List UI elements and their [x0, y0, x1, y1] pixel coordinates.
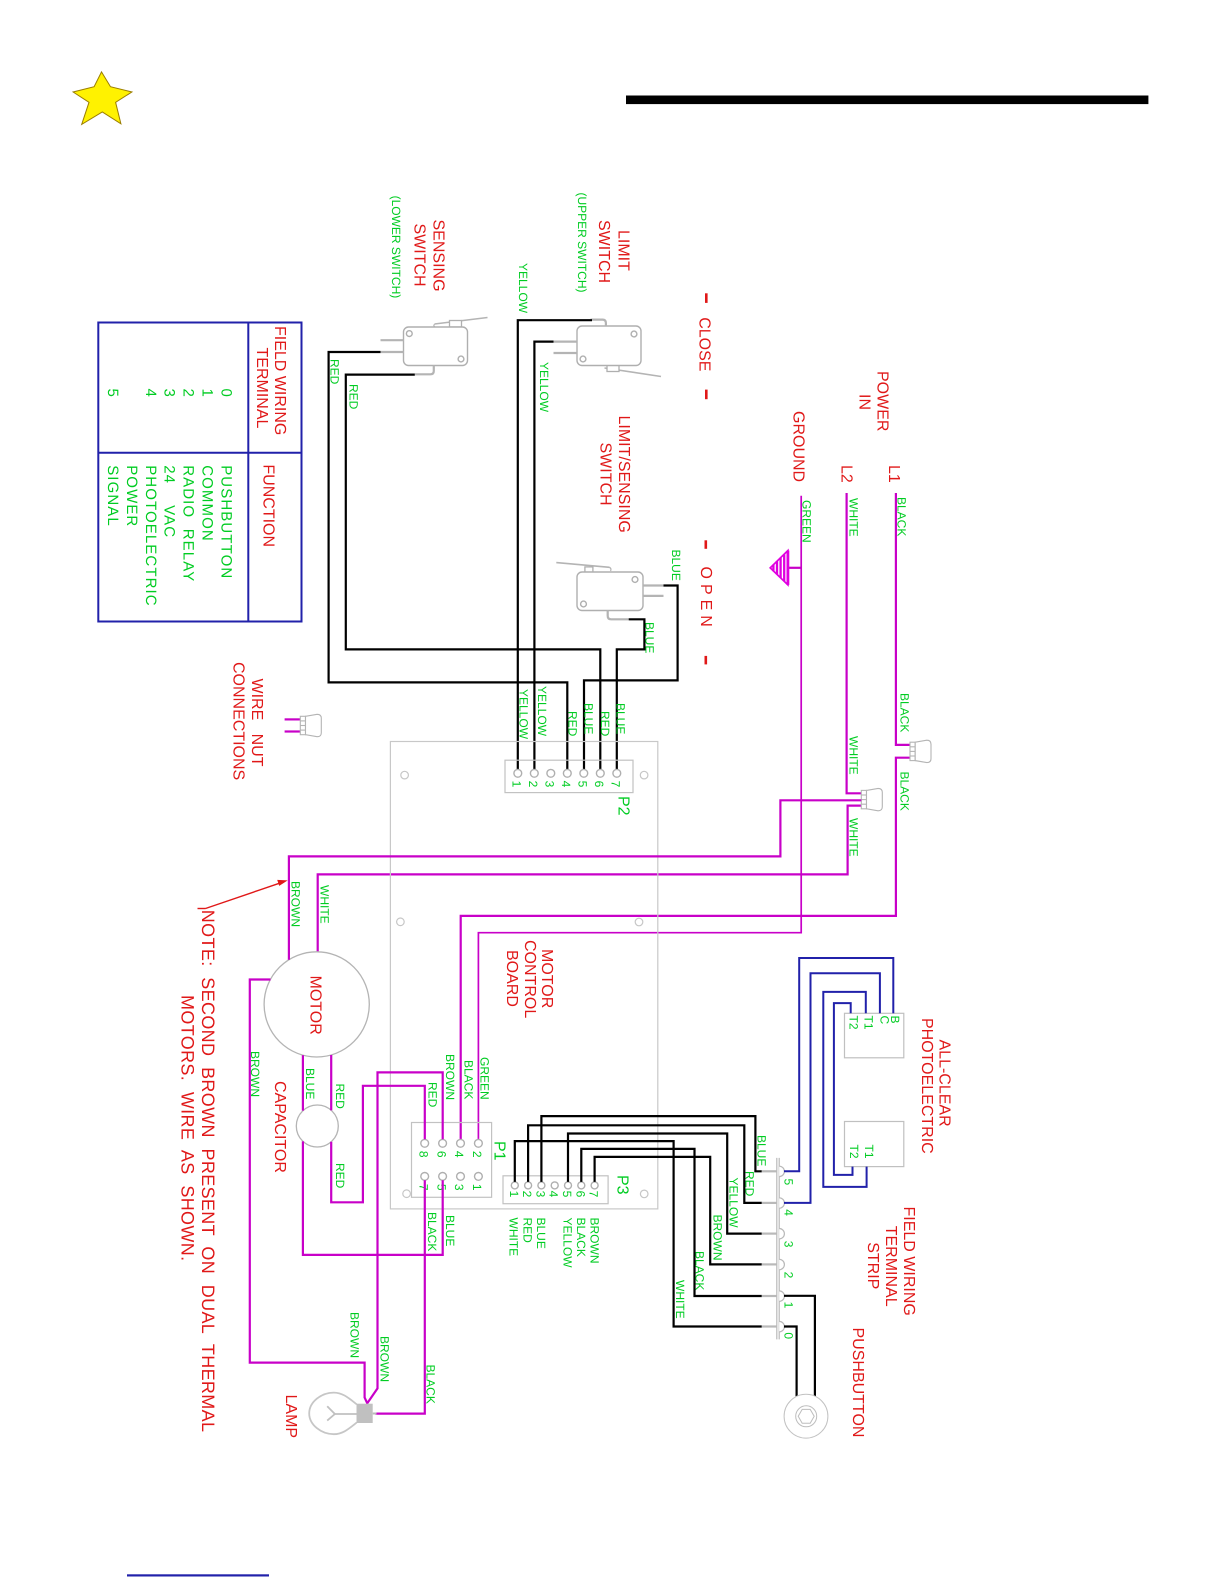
svg-text:TERMINAL: TERMINAL: [253, 348, 270, 429]
wire brown P3 pin7 to terminal 2: [595, 1157, 762, 1265]
wire L2 white (magenta) to wire nut: [847, 493, 862, 793]
svg-text:2: 2: [526, 781, 540, 788]
sensing switch S1 (lower): [381, 318, 488, 375]
svg-text:BLACK: BLACK: [898, 693, 912, 732]
limit switch S2 (upper): [554, 320, 662, 377]
svg-text:WHITE: WHITE: [847, 818, 861, 857]
svg-text:CONNECTIONS: CONNECTIONS: [230, 662, 247, 780]
limit/sensing switch S3: [556, 563, 663, 620]
wire white from nut to motor: [318, 806, 862, 952]
svg-text:24 VAC: 24 VAC: [161, 465, 178, 538]
svg-text:1: 1: [507, 1191, 521, 1198]
footer blue line: [127, 1574, 269, 1576]
svg-text:BROWN: BROWN: [711, 1215, 725, 1261]
svg-text:T2: T2: [847, 1145, 861, 1159]
svg-text:GREEN: GREEN: [478, 1057, 492, 1100]
svg-text:T2: T2: [847, 1016, 861, 1030]
svg-text:CLOSE: CLOSE: [696, 317, 713, 371]
svg-text:4: 4: [142, 389, 159, 398]
svg-text:7: 7: [587, 1191, 601, 1198]
wire terminal 0 to pushbutton: [784, 1327, 797, 1397]
wire green ground: [478, 496, 801, 1140]
title bar: [626, 96, 1148, 105]
svg-text:BLACK: BLACK: [693, 1251, 707, 1290]
svg-text:CONTROL: CONTROL: [521, 940, 538, 1018]
wire blue S3 bottom pin to P2 pin7: [617, 619, 645, 769]
navy wire B to terminal 5: [784, 958, 893, 1171]
motor: [264, 952, 369, 1057]
svg-text:RED: RED: [566, 711, 580, 737]
photoelectric upper box: [845, 1013, 904, 1058]
svg-text:BROWN: BROWN: [378, 1336, 392, 1382]
svg-text:PUSHBUTTON: PUSHBUTTON: [849, 1328, 866, 1438]
svg-text:WHITE: WHITE: [507, 1218, 521, 1257]
svg-text:5: 5: [104, 389, 121, 398]
svg-text:WHITE: WHITE: [318, 885, 332, 924]
svg-text:7: 7: [609, 781, 623, 788]
svg-text:WHITE: WHITE: [847, 736, 861, 775]
svg-text:RED: RED: [521, 1218, 535, 1244]
svg-text:POWER: POWER: [123, 465, 140, 527]
svg-text:7: 7: [416, 1184, 430, 1191]
wire white P3 pin1 to terminal 0: [515, 1141, 762, 1326]
field wiring terminal strip: [762, 1158, 785, 1340]
svg-text:3: 3: [452, 1184, 466, 1191]
svg-text:BLUE: BLUE: [582, 703, 596, 734]
wire red P3 pin2 to terminal 4: [528, 1125, 762, 1203]
svg-text:RED: RED: [743, 1171, 757, 1197]
wire blue S3 top pin to P2 pin5: [584, 586, 678, 770]
svg-text:NOTE: SECOND BROWN PRESENT: NOTE: SECOND BROWN PRESENT ON DUAL THERM…: [198, 910, 218, 1433]
svg-text:YELLOW: YELLOW: [516, 263, 530, 314]
svg-text:3: 3: [543, 781, 557, 788]
svg-text:PUSHBUTTON: PUSHBUTTON: [217, 465, 234, 579]
wire nut on L1: [910, 740, 931, 762]
svg-text:4: 4: [547, 1191, 561, 1198]
svg-text:BOARD: BOARD: [503, 950, 520, 1007]
svg-text:1: 1: [199, 389, 216, 398]
svg-text:STRIP: STRIP: [864, 1242, 881, 1289]
wire brown P1 pin6 to lamp: [367, 1072, 443, 1403]
svg-text:WHITE: WHITE: [847, 498, 861, 537]
label - CLOSE -: [696, 293, 713, 399]
wire yellow S2 mid pin to P2 pin2: [534, 342, 553, 770]
svg-text:BLUE: BLUE: [303, 1068, 317, 1099]
svg-text:(UPPER SWITCH): (UPPER SWITCH): [575, 193, 589, 293]
board mounting holes: [401, 771, 409, 779]
wire red S1 bottom pin to P2 pin6: [346, 375, 601, 770]
capacitor: [296, 1105, 338, 1147]
svg-text:T1: T1: [862, 1016, 876, 1030]
svg-text:SENSING: SENSING: [430, 220, 447, 292]
svg-text:GREEN: GREEN: [800, 500, 814, 543]
svg-text:P3: P3: [614, 1175, 631, 1195]
svg-text:1: 1: [470, 1184, 484, 1191]
svg-text:BLUE: BLUE: [614, 703, 628, 734]
svg-text:BROWN: BROWN: [443, 1054, 457, 1100]
connector P1: [412, 1123, 492, 1198]
svg-text:FIELD WIRING: FIELD WIRING: [271, 326, 288, 435]
svg-text:SWITCH: SWITCH: [595, 220, 612, 283]
navy wire upper T2 to lower T2: [834, 1003, 853, 1175]
svg-text:P1: P1: [491, 1141, 508, 1161]
wire terminal 1 to pushbutton: [784, 1296, 815, 1396]
svg-text:LIMIT: LIMIT: [615, 230, 632, 271]
svg-text:BLUE: BLUE: [443, 1215, 457, 1246]
svg-text:2: 2: [520, 1191, 534, 1198]
svg-text:5: 5: [576, 781, 590, 788]
svg-text:YELLOW: YELLOW: [517, 689, 531, 740]
wire blue P3 pin3 to terminal 5: [541, 1116, 761, 1182]
connector P2: [505, 760, 633, 792]
svg-text:FUNCTION: FUNCTION: [260, 464, 277, 547]
svg-text:L1: L1: [885, 465, 902, 483]
svg-text:BLACK: BLACK: [895, 497, 909, 536]
photoelectric lower box: [845, 1122, 904, 1167]
svg-text:5: 5: [781, 1179, 795, 1186]
lamp: [309, 1393, 376, 1435]
svg-text:BLACK: BLACK: [462, 1060, 476, 1099]
svg-text:LIMIT/SENSING: LIMIT/SENSING: [615, 416, 632, 533]
svg-text:RED: RED: [328, 359, 342, 385]
pushbutton: [784, 1394, 828, 1438]
ground symbol: [770, 551, 801, 585]
wire red S1 mid pin to P2 pin4: [329, 352, 568, 769]
svg-text:GROUND: GROUND: [790, 411, 807, 482]
svg-text:YELLOW: YELLOW: [537, 362, 551, 413]
svg-text:POWER: POWER: [874, 371, 891, 431]
svg-text:2: 2: [180, 389, 197, 398]
svg-text:4: 4: [559, 781, 573, 788]
svg-text:YELLOW: YELLOW: [561, 1218, 575, 1269]
svg-text:6: 6: [434, 1151, 448, 1158]
svg-text:MOTOR: MOTOR: [307, 976, 324, 1035]
field wiring terminal table: [98, 323, 301, 622]
svg-text:BLUE: BLUE: [534, 1218, 548, 1249]
svg-text:YELLOW: YELLOW: [535, 686, 549, 737]
svg-text:SWITCH: SWITCH: [411, 224, 428, 287]
svg-text:MOTORS. WIRE AS SHOWN.: MOTORS. WIRE AS SHOWN.: [178, 995, 198, 1261]
svg-text:BROWN: BROWN: [248, 1051, 262, 1097]
svg-text:C: C: [878, 1016, 892, 1025]
svg-text:1: 1: [781, 1302, 795, 1309]
svg-text:TERMINAL: TERMINAL: [882, 1226, 899, 1307]
svg-text:WIRE NUT: WIRE NUT: [248, 679, 265, 767]
wire L1 black (magenta) to wire nut and P1 pin4: [896, 493, 910, 745]
svg-text:RED: RED: [347, 384, 361, 410]
svg-text:IN: IN: [856, 394, 873, 410]
svg-text:6: 6: [573, 1191, 587, 1198]
svg-text:BLACK: BLACK: [425, 1212, 439, 1251]
svg-text:0: 0: [217, 389, 234, 398]
svg-text:BLUE: BLUE: [643, 622, 657, 653]
wire yellow P3 pin5 to terminal 3: [568, 1134, 762, 1234]
svg-text:BROWN: BROWN: [348, 1312, 362, 1358]
svg-text:5: 5: [560, 1191, 574, 1198]
svg-text:5: 5: [434, 1184, 448, 1191]
svg-text:6: 6: [592, 781, 606, 788]
svg-text:RED: RED: [426, 1082, 440, 1108]
svg-text:FIELD WIRING: FIELD WIRING: [900, 1207, 917, 1316]
svg-text:PHOTOELECTRIC: PHOTOELECTRIC: [142, 465, 159, 607]
svg-text:T1: T1: [862, 1145, 876, 1159]
svg-text:RED: RED: [333, 1163, 347, 1189]
svg-text:RED: RED: [598, 711, 612, 737]
svg-text:8: 8: [416, 1151, 430, 1158]
svg-text:RED: RED: [333, 1084, 347, 1110]
svg-text:2: 2: [470, 1151, 484, 1158]
svg-text:CAPACITOR: CAPACITOR: [271, 1081, 288, 1173]
svg-text:COMMON: COMMON: [199, 465, 216, 542]
connector P3: [503, 1176, 608, 1204]
wire nut example symbol: [285, 714, 322, 736]
svg-text:PHOTOELECTRIC: PHOTOELECTRIC: [918, 1018, 935, 1154]
svg-text:YELLOW: YELLOW: [727, 1178, 741, 1229]
svg-text:(LOWER SWITCH): (LOWER SWITCH): [389, 196, 403, 299]
svg-text:3: 3: [533, 1191, 547, 1198]
svg-text:SIGNAL: SIGNAL: [104, 465, 121, 527]
wire red motor-capacitor-P1 pin8: [330, 1055, 332, 1110]
wire nut on L2: [861, 788, 882, 810]
svg-text:LAMP: LAMP: [282, 1395, 299, 1439]
svg-text:BLACK: BLACK: [898, 772, 912, 811]
svg-text:RADIO RELAY: RADIO RELAY: [180, 465, 197, 582]
svg-text:3: 3: [781, 1241, 795, 1248]
svg-text:0: 0: [781, 1332, 795, 1339]
wire yellow S2 top pin to P2 pin1: [518, 320, 592, 769]
svg-text:2: 2: [781, 1272, 795, 1279]
star logo: [73, 72, 132, 125]
svg-text:4: 4: [452, 1151, 466, 1158]
wire blue motor-capacitor-P1 pin5: [302, 1055, 304, 1110]
svg-text:SWITCH: SWITCH: [597, 443, 614, 506]
svg-text:BROWN: BROWN: [289, 881, 303, 927]
svg-text:BROWN: BROWN: [588, 1218, 602, 1264]
note arrow: [198, 880, 288, 909]
svg-text:P2: P2: [615, 796, 632, 816]
svg-text:L2: L2: [838, 465, 855, 483]
wire black P3 pin6 to terminal 1: [581, 1149, 762, 1296]
svg-text:WHITE: WHITE: [673, 1280, 687, 1319]
svg-text:BLACK: BLACK: [424, 1365, 438, 1404]
svg-text:1: 1: [510, 781, 524, 788]
svg-text:BLUE: BLUE: [669, 550, 683, 581]
svg-text:MOTOR: MOTOR: [538, 949, 555, 1008]
svg-text:BLUE: BLUE: [755, 1135, 769, 1166]
wire black P1 pin7 to lamp: [375, 1180, 425, 1413]
svg-text:3: 3: [161, 389, 178, 398]
svg-text:BLACK: BLACK: [574, 1218, 588, 1257]
motor control board outline: [390, 742, 657, 1209]
svg-text:ALL-CLEAR: ALL-CLEAR: [936, 1040, 953, 1127]
wire second brown motor to lamp: [250, 980, 368, 1404]
navy wire upper T1 to lower T1: [823, 992, 866, 1187]
svg-text:4: 4: [781, 1209, 795, 1216]
label - OPEN -: [697, 540, 714, 664]
wire brown motor to L2 nut: [289, 800, 861, 960]
svg-text:OPEN: OPEN: [697, 567, 714, 632]
navy wire C to terminal 4: [784, 973, 880, 1203]
